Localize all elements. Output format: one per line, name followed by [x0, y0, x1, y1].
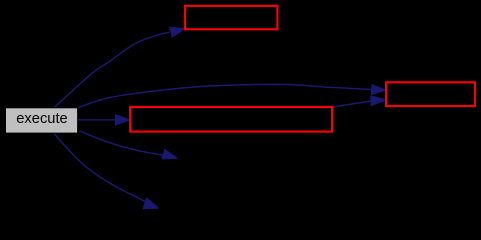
node middle (red, truncated) [130, 107, 332, 132]
hidden node B (black on black) [159, 196, 279, 221]
wire execute to hidden node A [79, 131, 177, 159]
node right (red, truncated) [386, 82, 475, 106]
wire execute to hidden node B [54, 133, 159, 208]
node top (red, truncated) [185, 6, 277, 29]
node execute (current node, grey fill) [6, 108, 78, 133]
wire execute to top node [54, 27, 185, 108]
wire execute to right node (long upper curve) [78, 84, 386, 107]
svg-text:execute: execute [16, 111, 67, 127]
wire middle node to right node [333, 96, 386, 107]
hidden node A (black on black) [178, 146, 298, 171]
wire execute to middle node [78, 115, 130, 125]
